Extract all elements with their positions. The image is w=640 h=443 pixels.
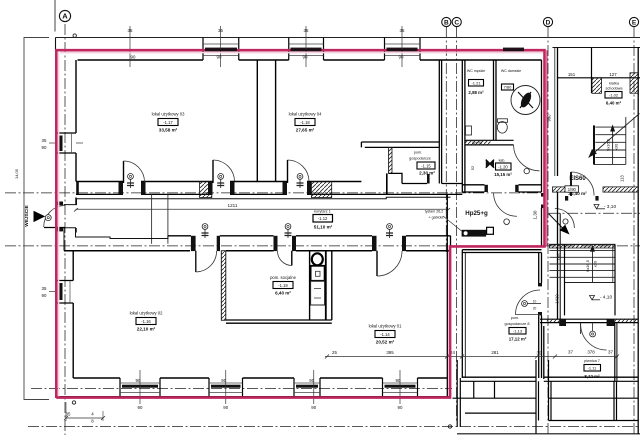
grid axis B dash-dot line: [445, 27, 447, 252]
side entrance arrow right: [549, 209, 575, 235]
pink halo: [59, 53, 543, 397]
door D1 leaf and arc: [124, 161, 145, 183]
corridor top wall lower face: [76, 193, 462, 195]
svg-text:90: 90: [223, 405, 228, 410]
piwnica bottom wall: [544, 377, 638, 381]
niche wall room 04: [361, 142, 439, 147]
svg-text:lokal użytkowy 02: lokal użytkowy 02: [130, 311, 163, 316]
svg-text:lokal użytkowy 04: lokal użytkowy 04: [289, 112, 322, 117]
window top W1 dim ticks and text: [217, 26, 224, 67]
svg-text:6,40 m²: 6,40 m²: [275, 291, 291, 296]
light well verticals left: [457, 360, 536, 427]
small circle marker bottom-left: [72, 401, 75, 404]
window top W2 dim ticks and text: [303, 26, 309, 67]
svg-text:52: 52: [470, 165, 475, 170]
window top W3 frame: [385, 38, 421, 61]
svg-text:-1.17: -1.17: [163, 120, 173, 125]
grid axis C dash-dot line: [456, 27, 458, 422]
svg-text:378: 378: [587, 350, 595, 355]
grid bubble B: [442, 17, 451, 26]
right wing inner top line: [558, 77, 640, 79]
light well walls horizontal y398: [453, 397, 639, 399]
window bottom V2: [209, 370, 243, 410]
pom gospodarcza 8 label: [505, 316, 530, 342]
door E2 leaf and arc: [278, 251, 292, 266]
window top W1 black bar: [205, 48, 237, 51]
svg-text:lokal użytkowy 01: lokal użytkowy 01: [369, 324, 402, 329]
lokal01 right wall: [447, 194, 450, 396]
bottom wall outer face: [56, 396, 451, 398]
svg-text:+ gablota: + gablota: [429, 216, 444, 220]
room 1.13 bottom wall: [460, 377, 536, 381]
pink inner strand right: [546, 50, 548, 246]
svg-text:8,12 m²: 8,12 m²: [584, 374, 600, 379]
svg-text:15,15 m²: 15,15 m²: [494, 172, 512, 177]
piwnica door arc: [581, 323, 607, 350]
bottom-left dimension: [64, 402, 105, 424]
dim texts on y356: [332, 350, 613, 356]
svg-text:pom. socjalne: pom. socjalne: [270, 275, 297, 280]
svg-text:-1.18: -1.18: [300, 120, 310, 125]
svg-text:-1.02: -1.02: [609, 93, 619, 98]
door E1 symbol: [202, 224, 209, 238]
EIS60 door posts: [565, 196, 599, 201]
svg-text:x30: x30: [593, 260, 598, 267]
right wing left wall: [555, 48, 560, 320]
svg-text:35: 35: [42, 138, 47, 143]
bottom wall inner face: [73, 377, 447, 379]
svg-text:20: 20: [533, 307, 537, 311]
strip bottom line: [442, 183, 463, 185]
room 01 label: [369, 324, 402, 345]
svg-text:korytarz 1: korytarz 1: [314, 210, 331, 214]
door E1 black posts: [191, 236, 220, 251]
svg-text:tystam 26,2: tystam 26,2: [425, 210, 444, 214]
window left L1 frame: [56, 133, 76, 153]
door E1 leaf and arc: [196, 251, 217, 272]
lintel Hp25 black beam: [462, 227, 494, 236]
bottom rooms top wall upper face: [168, 235, 451, 237]
axis dash-dot y246: [5, 245, 640, 247]
svg-text:35: 35: [304, 28, 309, 33]
lower right corridor wall: [540, 319, 638, 326]
WC damska big shower circle: [511, 86, 540, 115]
corridor axis dash-dot: [5, 192, 541, 194]
svg-text:151: 151: [568, 72, 576, 77]
svg-text:27,65 m²: 27,65 m²: [296, 128, 315, 133]
svg-text:C: C: [454, 19, 459, 26]
svg-text:lokal użytkowy 03: lokal użytkowy 03: [152, 112, 185, 117]
WC block left wall inner: [464, 60, 466, 192]
svg-text:30,40 m²: 30,40 m²: [568, 191, 587, 196]
level mark -4.10: [590, 295, 613, 301]
svg-text:35: 35: [42, 286, 47, 291]
pier dim tick at x130: [128, 26, 136, 67]
stair upper flight steps: [594, 127, 626, 164]
window left L2 frame: [56, 281, 73, 304]
svg-text:2,30 m²: 2,30 m²: [419, 171, 435, 176]
svg-text:90: 90: [138, 405, 143, 410]
svg-text:37: 37: [568, 350, 573, 355]
top wall outer face: [56, 37, 640, 39]
wall stub above top-left corner: [54, 0, 56, 32]
grid bubble A: [59, 10, 70, 21]
svg-text:-1.21: -1.21: [471, 81, 481, 86]
svg-text:x30: x30: [614, 143, 619, 150]
corridor ceiling line: [64, 197, 451, 204]
axis dash-dot y388: [31, 388, 452, 390]
door tag box right wing: [565, 186, 579, 192]
svg-text:7/80: 7/80: [504, 85, 513, 90]
left outer site outline: [24, 38, 49, 400]
utility room 1.15 bottom walls: [387, 147, 440, 194]
korytarz label: [313, 210, 333, 230]
top-left corner stub: [55, 38, 57, 52]
main block right wall upper: [542, 50, 545, 193]
window bottom V4: [383, 370, 418, 410]
door D2 black posts: [208, 182, 235, 195]
window bottom V3: [294, 370, 320, 410]
room 02 label: [130, 311, 163, 332]
svg-text:113: 113: [620, 175, 625, 182]
door D3 leaf and arc: [288, 160, 310, 183]
svg-text:- 4,10: - 4,10: [600, 295, 613, 301]
svg-text:395: 395: [386, 350, 394, 355]
svg-text:127: 127: [609, 72, 617, 77]
svg-text:pom.: pom.: [414, 151, 422, 155]
svg-text:90: 90: [136, 378, 141, 383]
window bottom V1: [120, 370, 160, 410]
svg-text:1211: 1211: [228, 203, 238, 208]
svg-text:90: 90: [221, 378, 226, 383]
svg-text:Szt. 98: Szt. 98: [472, 141, 482, 145]
svg-text:90: 90: [309, 378, 314, 383]
svg-text:WC damskie: WC damskie: [501, 69, 521, 73]
window top W3 dim ticks and text: [399, 26, 405, 67]
door E3 symbol: [386, 224, 393, 238]
svg-text:schodowa: schodowa: [605, 87, 623, 91]
light well walls horizontal y420: [549, 420, 639, 422]
svg-text:90: 90: [42, 145, 47, 150]
piwnica top wall with door: [544, 323, 617, 382]
svg-text:D: D: [546, 19, 551, 26]
svg-text:30: 30: [537, 351, 542, 356]
pink boundary main loop: [56, 50, 544, 398]
bottom rooms top wall lower face: [64, 250, 451, 252]
window top W2 black bar: [291, 48, 322, 51]
small circle marker bottom-mid: [448, 425, 451, 428]
svg-text:gospodarcze: gospodarcze: [409, 157, 431, 161]
svg-text:kab.: kab.: [499, 159, 506, 163]
svg-text:90: 90: [399, 55, 404, 60]
partition wall rooms 03/04: [257, 60, 275, 182]
svg-text:35: 35: [128, 28, 133, 33]
svg-text:90: 90: [398, 405, 403, 410]
room 1.13 door arc: [516, 290, 542, 315]
grid axis D dash-dot line: [547, 27, 549, 434]
door E3 black posts: [372, 236, 406, 251]
level mark -3.10: [594, 204, 616, 210]
svg-text:90: 90: [396, 378, 401, 383]
svg-text:- 3,10: - 3,10: [604, 204, 617, 210]
room 1.13 left wall: [461, 250, 463, 378]
window left L1 black bar: [60, 136, 63, 152]
room 1.13 right wall with door: [538, 253, 542, 379]
WC middle wall hatched: [465, 140, 514, 145]
light well verticals right: [614, 381, 617, 420]
left wall inner face: [73, 60, 76, 378]
svg-text:-1.13: -1.13: [513, 329, 523, 334]
svg-text:90: 90: [303, 55, 308, 60]
svg-text:10: 10: [533, 300, 537, 304]
door E3 leaf and arc: [377, 251, 402, 276]
corridor top wall upper face: [76, 181, 361, 183]
pom gospodarcze 1.15 label: [409, 151, 435, 176]
svg-text:WC męskie: WC męskie: [467, 69, 485, 73]
kab floor drain X symbol: [486, 160, 494, 168]
grid bubble C: [452, 17, 461, 26]
window left L2 black bar: [60, 283, 63, 300]
svg-text:14,05: 14,05: [14, 168, 19, 179]
top wall inner face segments: [78, 59, 542, 61]
right wing axis dash-dot: [549, 212, 640, 214]
svg-text:2,88 m²: 2,88 m²: [468, 90, 484, 95]
door E2 black posts: [274, 236, 297, 251]
svg-text:90: 90: [217, 55, 222, 60]
svg-text:6,40 m²: 6,40 m²: [606, 101, 622, 106]
room 1.13 top wall: [462, 250, 541, 253]
pom socjalne bottom wall: [226, 320, 332, 323]
WC toilet fixture: [497, 119, 507, 133]
svg-text:1,30: 1,30: [533, 210, 538, 219]
utility room 1.15 left wall hatched: [389, 147, 393, 173]
kab label: [494, 159, 512, 178]
svg-text:-1.19: -1.19: [278, 283, 288, 288]
svg-text:-1.14: -1.14: [380, 332, 390, 337]
EIS60 door arc: [571, 172, 594, 196]
svg-text:5x16,5: 5x16,5: [606, 138, 611, 151]
main entrance arrow: [34, 211, 46, 222]
pom socjalne right wall: [310, 251, 332, 320]
svg-text:-1.12: -1.12: [318, 216, 328, 221]
corridor wall left end post: [76, 182, 79, 195]
svg-text:90: 90: [311, 405, 316, 410]
svg-text:90: 90: [131, 55, 136, 60]
window top W2 frame: [289, 38, 324, 61]
grid axis A dash-dot line: [64, 24, 66, 435]
svg-text:90: 90: [42, 293, 47, 298]
svg-text:20,52 m²: 20,52 m²: [376, 340, 395, 345]
door E2 symbol: [285, 224, 292, 238]
right wing top wall outer: [553, 47, 640, 49]
window top W1 frame: [203, 38, 239, 61]
svg-text:281: 281: [491, 350, 499, 355]
corridor top wall hatch block right of D3: [311, 182, 331, 198]
svg-text:A: A: [62, 12, 68, 21]
axis dash-dot y426: [28, 426, 640, 428]
svg-text:22,10 m²: 22,10 m²: [137, 327, 156, 332]
long bottom line: [457, 433, 640, 435]
svg-text:klatka: klatka: [609, 82, 620, 86]
WC meska sink: [466, 126, 472, 135]
wall between lokal02 and pom.socjalne hatched: [221, 251, 226, 321]
small wc fixtures: [311, 253, 325, 305]
window glazing bars over pink: [205, 49, 524, 51]
window left L1 dim: [42, 138, 83, 150]
grid bubble D: [543, 17, 552, 26]
light well verticals middle: [536, 360, 551, 434]
main block right wall lower: [541, 193, 545, 247]
door D2 leaf and arc: [213, 160, 235, 183]
svg-text:-1.11: -1.11: [588, 366, 598, 371]
svg-text:37: 37: [608, 350, 613, 355]
WC partition meska/damska: [494, 60, 497, 140]
svg-text:gospodarcze 8: gospodarcze 8: [505, 322, 530, 326]
WC inner door arc kab: [514, 145, 540, 174]
svg-text:Hp25+g: Hp25+g: [465, 210, 488, 217]
door D1 black posts: [119, 182, 146, 195]
door D3 symbol: [297, 174, 304, 189]
small circle marker top-left: [73, 34, 76, 37]
svg-text:35: 35: [218, 28, 223, 33]
WC meska label: [467, 69, 485, 95]
svg-text:-1.20: -1.20: [498, 164, 508, 169]
stair lower rails: [565, 245, 616, 316]
door D1 symbol: [127, 174, 134, 189]
svg-text:-1.15: -1.15: [421, 163, 431, 168]
leader note beton: [425, 210, 462, 232]
corridor width dimension line 1211: [74, 203, 450, 212]
svg-text:1410: 1410: [555, 294, 560, 304]
WC damska label: [501, 69, 521, 90]
pom socjalne label: [270, 275, 297, 296]
svg-text:25: 25: [332, 350, 337, 355]
left wall outer face: [55, 50, 57, 398]
kab bottom wall with door opening: [462, 185, 541, 192]
window top W3 black bar: [387, 48, 418, 51]
svg-text:E: E: [632, 19, 637, 26]
room 04 label: [289, 112, 322, 133]
stair lower arrow: [585, 245, 598, 282]
main entrance door leaf and arc: [44, 206, 65, 228]
corridor top wall hatch block left of D2: [200, 182, 212, 198]
door D2 symbol: [217, 174, 224, 189]
window left L2 dim: [42, 286, 56, 298]
strip wall between room04 and WC block: [461, 60, 463, 192]
right wing top divider wall: [591, 48, 593, 94]
corridor right wing hatched wall right: [603, 187, 638, 192]
svg-text:35: 35: [66, 412, 71, 417]
svg-text:6x16,5: 6x16,5: [585, 259, 590, 272]
piwnica label: [584, 359, 601, 379]
corridor draft-lobby partition: [152, 194, 168, 243]
hatched pier right edge: [630, 73, 638, 93]
grid bubble E: [629, 17, 638, 26]
corridor right wing hatched wall left: [553, 187, 567, 192]
grid axis E dash-dot line: [633, 27, 635, 434]
corridor lower zigzag near entrance: [64, 228, 168, 251]
svg-text:piwnica 7: piwnica 7: [584, 359, 600, 363]
svg-text:35: 35: [400, 28, 405, 33]
svg-text:150: 150: [557, 253, 562, 260]
stair upper rails: [594, 117, 626, 164]
svg-text:pom.: pom.: [511, 316, 519, 320]
svg-text:17,12 m²: 17,12 m²: [509, 337, 527, 342]
hatch band above lower stairs: [550, 244, 616, 248]
door D3 black posts: [283, 182, 312, 195]
stair lower flight steps: [550, 245, 616, 283]
svg-text:-1.16: -1.16: [141, 319, 151, 324]
stair upper arrow: [589, 114, 640, 165]
svg-text:51,10 m²: 51,10 m²: [314, 225, 333, 230]
room 03 label: [152, 112, 185, 133]
klatka schodowa label: [605, 82, 623, 106]
svg-text:WEJŚCIE: WEJŚCIE: [23, 204, 30, 226]
kab door arc to corridor: [494, 193, 517, 225]
room 04 right wall: [439, 60, 441, 184]
svg-text:B: B: [444, 19, 449, 26]
main entrance door opening posts: [56, 202, 63, 232]
hatched pier stair left: [592, 78, 602, 94]
right wing right wall: [637, 48, 639, 435]
interior dimension line y356: [325, 355, 619, 359]
svg-text:33,58 m²: 33,58 m²: [159, 128, 178, 133]
WC top wall window black bar: [503, 48, 524, 51]
